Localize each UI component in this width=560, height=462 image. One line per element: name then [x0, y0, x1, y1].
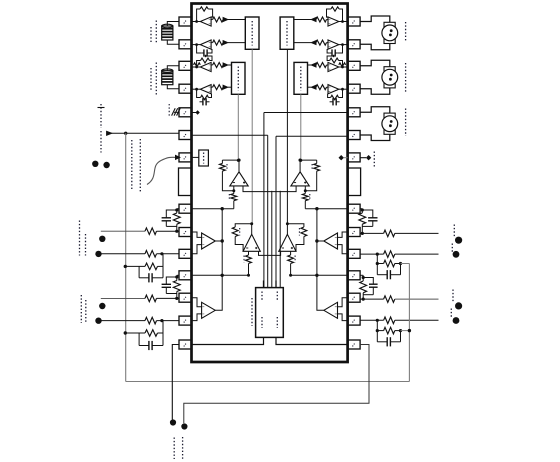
pin 15 (left)	[179, 340, 192, 349]
label block BB	[251, 298, 253, 326]
tape head H1	[162, 24, 173, 40]
frame pin (right)	[348, 168, 361, 196]
wire E out	[215, 239, 224, 242]
motor M1	[360, 16, 398, 50]
label inputs group 2	[81, 295, 86, 324]
bus wire right vertical	[408, 264, 411, 382]
block BB (control logic)	[256, 288, 284, 338]
resistor R-A2A3	[197, 55, 212, 67]
wire EQ3 to B2	[294, 42, 311, 44]
label input B+	[98, 104, 105, 128]
terminal dots mid-left	[92, 161, 110, 169]
op-amp A2 (head play R)	[192, 40, 229, 49]
label motor M1	[405, 22, 407, 42]
pin 16 (right)	[348, 293, 361, 302]
pin 5 (left)	[179, 108, 192, 117]
pin 28 (right)	[348, 17, 361, 26]
wire feedback bottom W1	[126, 381, 410, 383]
wire pin17R	[291, 274, 348, 276]
pin 23 (right)	[348, 131, 361, 140]
wire pin6 bus	[192, 134, 268, 136]
motor M2	[360, 60, 398, 94]
output network group 1 (R,R,C)	[360, 230, 462, 279]
wire pin12L	[192, 274, 249, 276]
pin 2 (left)	[179, 40, 192, 49]
input arrow to pin 6	[107, 131, 180, 135]
wire between upper pair	[243, 186, 296, 192]
RC network pin 20 right	[359, 208, 378, 235]
pin 17 (right)	[348, 271, 361, 280]
label bus col 1	[131, 140, 133, 191]
label motor M3	[405, 109, 407, 137]
pin 24 (right)	[348, 108, 361, 117]
wire center bus bundle	[264, 113, 280, 288]
bus wire from EQ4 down	[299, 94, 302, 162]
resistor R-B2B3	[327, 55, 342, 67]
pin 3 (left)	[179, 61, 192, 70]
RC network pin 17 right	[360, 275, 378, 300]
pin 6 (left)	[179, 131, 192, 140]
label input col	[100, 131, 102, 153]
pin 13 (left)	[179, 293, 192, 302]
wire BB bottom left to pin15L	[192, 337, 264, 344]
op-amp E (line in L)	[192, 232, 216, 254]
pin 19 (right)	[348, 228, 361, 237]
block EQ4 (rec eq)	[294, 62, 308, 94]
IC U1 body outline	[192, 4, 348, 363]
wire BB top stubs	[264, 281, 277, 288]
op-amp B4 (motor drive)	[311, 85, 348, 94]
wire pin16R loop W2	[184, 345, 369, 424]
output network group 2 (R,R,C)	[360, 296, 462, 347]
bus tap junction	[124, 132, 127, 135]
pin 14 (left)	[179, 316, 192, 325]
op-amp A1 (head play L)	[192, 7, 229, 26]
wire G out	[315, 239, 324, 242]
pin 4 (left)	[179, 84, 192, 93]
pin 1 (left)	[179, 17, 192, 26]
block EQ2 (playback eq)	[232, 62, 246, 94]
pin 20 (right)	[348, 204, 361, 213]
label bus col 2	[139, 139, 141, 193]
label inputs group 1	[80, 221, 86, 256]
capacitor C-A2 feedback	[197, 45, 212, 57]
wire F out	[215, 274, 224, 311]
wire vert 317	[316, 209, 318, 276]
wire A3 out to EQ2	[228, 64, 232, 66]
op-amp H (line in 2R)	[324, 298, 348, 321]
motor M3	[360, 107, 398, 141]
pin 9 (left)	[179, 204, 192, 213]
adjust arrow to pin 7	[147, 155, 180, 184]
wire A4 out to EQ2	[228, 86, 232, 88]
label ground cols	[174, 437, 182, 459]
wire bus top h2	[276, 135, 348, 137]
pin 14 (right)	[348, 340, 361, 349]
pin 26 (right)	[348, 61, 361, 70]
label head H1	[151, 21, 156, 45]
pin 22 (right)	[348, 153, 361, 162]
RC network pin 9 left	[162, 208, 181, 232]
block REF small	[192, 150, 209, 166]
pin 12 (left)	[179, 271, 192, 280]
capacitor C-B2 feedback	[327, 45, 342, 57]
op-amp B3 (motor drive)	[311, 62, 348, 71]
pin 10 (left)	[179, 228, 192, 237]
op-amp U-D (bias lower right)	[279, 222, 307, 276]
op-amp F (line in 2L)	[192, 298, 216, 321]
label outputs group 2	[451, 290, 453, 319]
RC network pin 12 left	[162, 275, 181, 300]
op-amp G (line in R)	[324, 232, 348, 254]
bus wire from EQ3 down	[286, 49, 288, 224]
pin 27 (right)	[348, 40, 361, 49]
test point pin 21 arrows	[339, 152, 375, 167]
label motor M2	[405, 63, 407, 93]
wire pin20R net	[305, 207, 347, 210]
frame pin (left)	[179, 168, 192, 196]
input network group 2 (R,R,C)	[95, 295, 179, 350]
block EQ1 (playback eq)	[245, 17, 259, 49]
bus wire from EQ2 down	[237, 94, 240, 162]
wire vert 222	[221, 209, 223, 276]
wire A2 out to EQ1	[228, 42, 245, 44]
wire H out	[315, 274, 324, 311]
label outputs group 1	[452, 225, 454, 253]
resistor series B3	[339, 63, 346, 67]
ground terminal 2	[181, 423, 187, 429]
pin 25 (right)	[348, 84, 361, 93]
wire bus top h1	[264, 112, 348, 114]
capacitor C-B4 feedback	[328, 89, 343, 105]
ground internal at pin5	[192, 110, 200, 114]
input network group 1 (R,R,C)	[95, 228, 179, 283]
op-amp U-C (bias lower left)	[232, 222, 260, 276]
op-amp B1 (motor drive)	[311, 7, 348, 26]
resistor series A3	[194, 63, 201, 67]
wire A1 out to EQ1	[228, 19, 245, 21]
wire head H1 to pins 1-2	[167, 22, 179, 45]
wire EQ4 to B3	[308, 64, 312, 66]
pin 7 (left)	[179, 153, 192, 162]
wire EQ4 to B4	[308, 86, 312, 88]
ground chassis at pin5	[169, 104, 180, 117]
label head H2	[151, 63, 156, 97]
bus wire from EQ1 down	[251, 49, 253, 224]
pin 15 (right)	[348, 316, 361, 325]
op-amp U-A (bias upper left)	[220, 159, 249, 209]
wire head H2 to pins 3-4	[167, 66, 179, 89]
op-amp A4 (head play 2R)	[192, 85, 229, 94]
wire pin9L net	[192, 207, 234, 210]
block EQ3 (rec eq)	[280, 17, 294, 49]
pin 11 (left)	[179, 249, 192, 258]
tape head H2	[162, 69, 173, 85]
op-amp A3 (head play 2L)	[192, 62, 229, 71]
capacitor C-A4 feedback	[197, 89, 212, 105]
pin 18 (right)	[348, 249, 361, 258]
wire EQ3 to B1	[294, 19, 311, 21]
wire pin15L to gnd	[172, 345, 179, 420]
wire between lower pair	[259, 251, 281, 255]
wire BB bottom right to pin16R	[276, 337, 348, 344]
op-amp B2 (motor drive)	[311, 40, 348, 49]
ground terminal 1	[170, 419, 176, 425]
op-amp U-B (bias upper right)	[291, 159, 320, 209]
bus wire left vertical	[125, 133, 127, 381]
